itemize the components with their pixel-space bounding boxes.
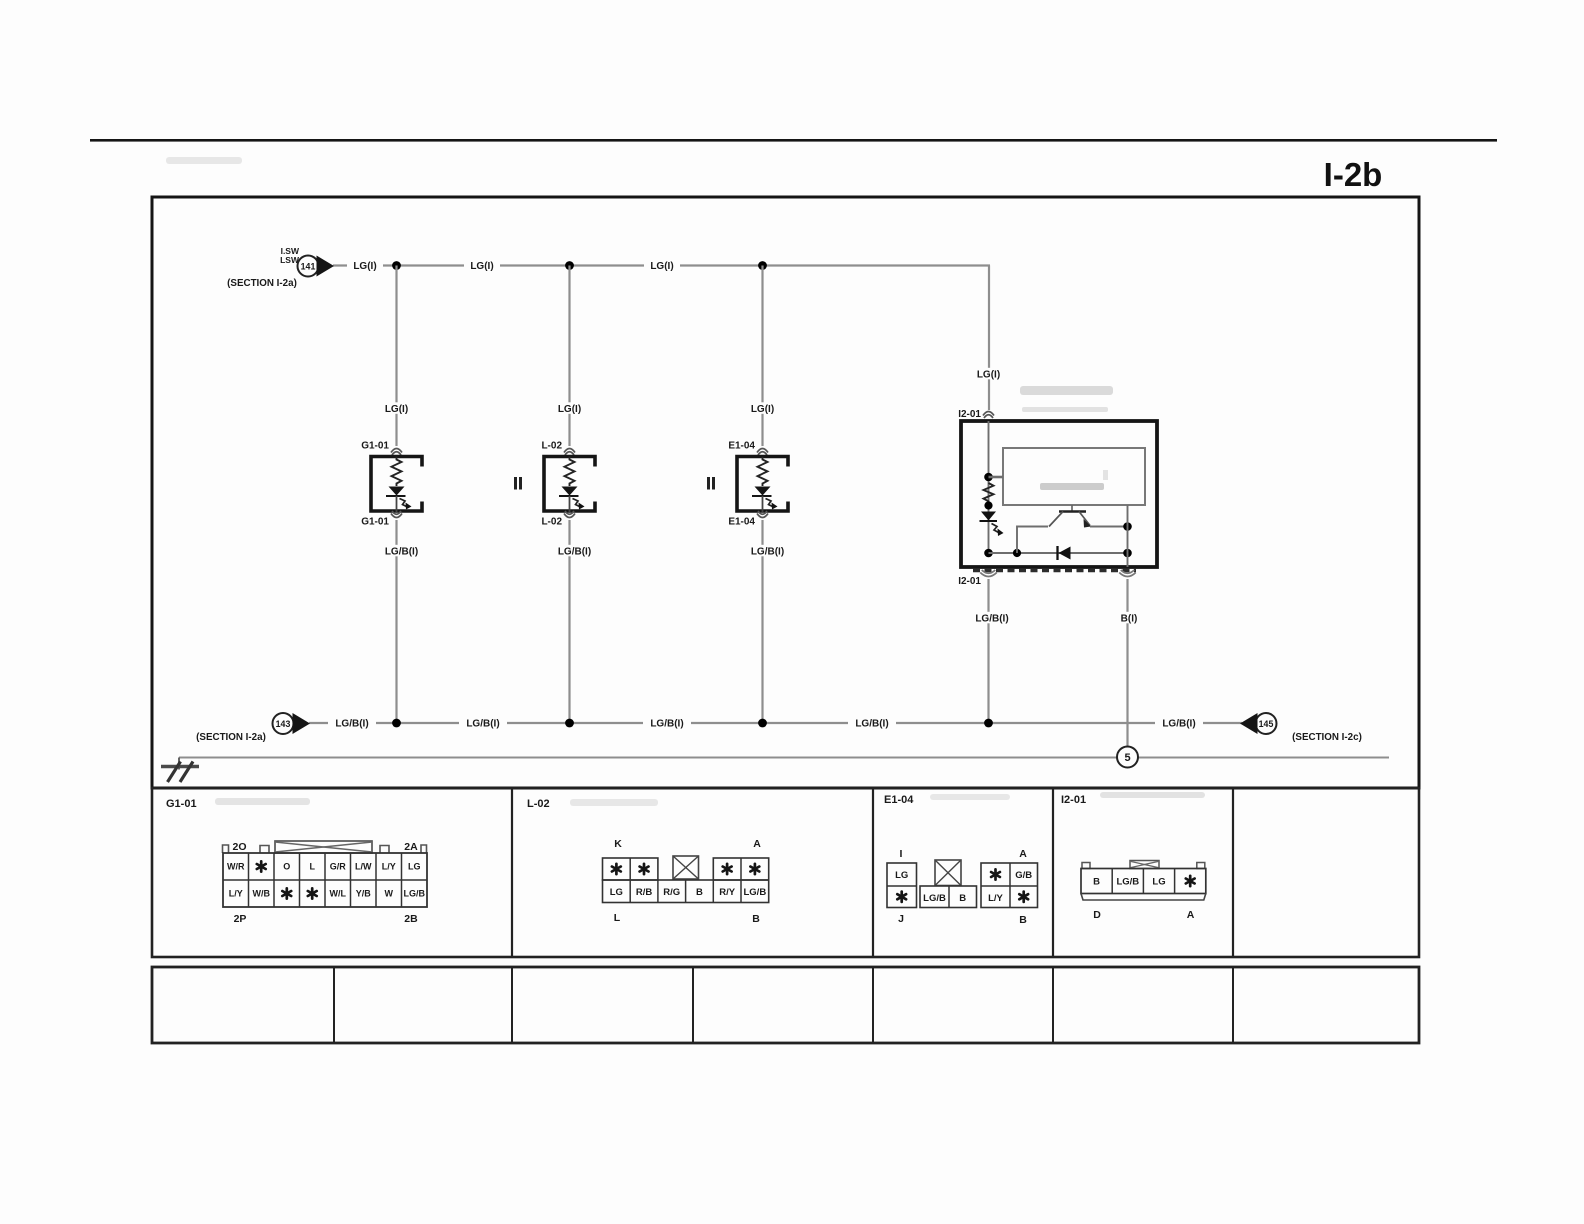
connector E1-04 bottom pin xyxy=(728,511,768,528)
svg-text:G1-01: G1-01 xyxy=(361,517,389,528)
svg-text:Y/B: Y/B xyxy=(356,889,372,899)
resistor in I2-01 xyxy=(984,483,994,503)
connector G1-01 pinout xyxy=(223,841,428,925)
LED in E1-04 xyxy=(752,487,778,510)
junction dot bottom bus / L-02 xyxy=(565,719,574,728)
connector I2-01 pinout xyxy=(1081,861,1206,922)
header E1-04 xyxy=(884,794,1010,806)
unit I2-01 case xyxy=(961,421,1157,567)
connector I2-01 bottom pin left xyxy=(958,570,997,587)
svg-text:A: A xyxy=(1019,848,1027,860)
svg-text:I2-01: I2-01 xyxy=(958,409,981,420)
wire: top bus drop to I2-01 xyxy=(988,266,990,411)
svg-text:LG/B(I): LG/B(I) xyxy=(975,614,1008,625)
junction dot I2-01 bottom-left xyxy=(984,549,993,558)
connector arrow 143 from SECTION I-2a xyxy=(196,713,310,743)
svg-text:143: 143 xyxy=(276,719,291,729)
svg-text:5: 5 xyxy=(1124,752,1130,764)
wire: LG/B(I) bottom bus xyxy=(309,722,1242,724)
svg-text:141: 141 xyxy=(301,262,316,272)
junction dot bottom bus / E1-04 xyxy=(758,719,767,728)
transistor Q in I2-01 xyxy=(1049,505,1091,528)
wire LED to case bottom in L-02 xyxy=(569,496,571,512)
table divider x=512 xyxy=(511,788,513,957)
svg-text:LG/B: LG/B xyxy=(1116,877,1139,888)
svg-text:LG: LG xyxy=(610,887,623,898)
svg-text:LG(I): LG(I) xyxy=(385,404,408,415)
illumination glyph left of L-02 xyxy=(514,477,522,490)
svg-text:LG/B: LG/B xyxy=(404,889,426,899)
label LG(I) on I2-01 drop xyxy=(971,368,1007,380)
svg-text:B(I): B(I) xyxy=(1121,614,1138,625)
svg-text:(SECTION I-2a): (SECTION I-2a) xyxy=(227,278,297,289)
resistor in G1-01 xyxy=(392,457,402,487)
connector table frame xyxy=(152,788,1419,957)
lamp L-02 case xyxy=(544,457,595,512)
svg-text:I2-01: I2-01 xyxy=(1061,794,1086,806)
label LG/B(I) seg3 xyxy=(643,717,691,729)
wire LED to case bottom in E1-04 xyxy=(762,496,764,512)
svg-text:I-2b: I-2b xyxy=(1324,156,1383,193)
LED in L-02 xyxy=(559,487,585,510)
svg-text:W/R: W/R xyxy=(227,862,245,872)
label LG/B(I) under G1-01 xyxy=(378,545,426,557)
table divider x=1233 xyxy=(1232,788,1234,957)
wire: I2-01 right leg xyxy=(1127,505,1129,567)
svg-text:(SECTION I-2c): (SECTION I-2c) xyxy=(1292,732,1362,743)
wire: LG/B(I) from G1-01 to bottom bus xyxy=(395,520,397,723)
svg-text:LG/B: LG/B xyxy=(923,893,946,904)
wire: LG/B(I) from E1-04 to bottom bus xyxy=(761,520,763,723)
label LG/B(I) seg2 xyxy=(459,717,507,729)
wire: LG(I) drop to G1-01 xyxy=(395,266,397,447)
legend divider x=1053 xyxy=(1052,967,1054,1043)
connector G1-01 top pin xyxy=(361,441,402,456)
faded page header text xyxy=(166,157,242,164)
svg-text:LG(I): LG(I) xyxy=(650,261,673,272)
svg-text:LG/B(I): LG/B(I) xyxy=(650,719,683,730)
svg-text:G/B: G/B xyxy=(1015,870,1032,881)
svg-text:LG(I): LG(I) xyxy=(558,404,581,415)
junction dot above LED xyxy=(984,501,992,509)
svg-text:I: I xyxy=(900,848,903,860)
svg-text:B: B xyxy=(752,913,760,925)
junction dot bottom bus stub xyxy=(1013,549,1021,557)
svg-text:2B: 2B xyxy=(404,913,418,925)
svg-text:LG/B(I): LG/B(I) xyxy=(335,719,368,730)
svg-text:LG: LG xyxy=(895,870,908,881)
svg-text:R/Y: R/Y xyxy=(719,887,736,898)
svg-text:R/G: R/G xyxy=(663,887,680,898)
wire: I2-01 left leg xyxy=(988,421,990,553)
label LG/B(I) under I2-01 xyxy=(968,612,1016,624)
svg-text:E1-04: E1-04 xyxy=(728,517,755,528)
svg-text:LG: LG xyxy=(408,862,421,872)
svg-text:K: K xyxy=(614,838,622,850)
junction dot bottom bus / I2-01 xyxy=(984,719,993,728)
wire: LG/B(I) from L-02 to bottom bus xyxy=(568,520,570,723)
svg-text:B: B xyxy=(1019,914,1027,926)
svg-text:A: A xyxy=(753,838,761,850)
wire: LG/B(I) from I2-01 to bottom bus xyxy=(987,579,989,723)
connector E1-04 pinout xyxy=(887,848,1038,926)
faded text above I2-01 box xyxy=(1020,386,1113,412)
connector E1-04 top pin xyxy=(728,441,768,456)
svg-text:R/B: R/B xyxy=(636,887,653,898)
svg-text:B: B xyxy=(959,893,966,904)
svg-text:LG/B(I): LG/B(I) xyxy=(558,547,591,558)
page top rule xyxy=(90,139,1497,142)
header I2-01 xyxy=(1061,792,1205,806)
illumination glyph left of E1-04 xyxy=(707,477,715,490)
wire: internal bottom bus of I2-01 xyxy=(989,552,1128,554)
svg-text:LG/B(I): LG/B(I) xyxy=(385,547,418,558)
ground (chassis) symbol xyxy=(161,758,199,783)
svg-text:L-02: L-02 xyxy=(527,798,550,810)
svg-text:I2-01: I2-01 xyxy=(958,576,981,587)
LED in G1-01 xyxy=(386,487,412,510)
table divider x=1053 xyxy=(1052,788,1054,957)
svg-text:L/W: L/W xyxy=(355,862,372,872)
svg-text:LG/B: LG/B xyxy=(743,887,766,898)
junction dot left leg / module stub xyxy=(984,473,993,482)
lamp E1-04 case xyxy=(737,457,788,512)
connector L-02 bottom pin xyxy=(541,511,575,528)
wire: emitter return stub xyxy=(1017,527,1048,554)
connector I2-01 top pin xyxy=(958,409,994,420)
bottom legend row xyxy=(152,967,1419,1043)
svg-text:LG(I): LG(I) xyxy=(751,404,774,415)
svg-text:LG/B(I): LG/B(I) xyxy=(751,547,784,558)
connector L-02 pinout xyxy=(603,838,769,925)
svg-text:G1-01: G1-01 xyxy=(361,441,389,452)
LED in I2-01 xyxy=(980,512,1004,537)
svg-text:2A: 2A xyxy=(404,841,418,853)
label B(I) xyxy=(1114,612,1144,624)
label LG(I) on E1-04 drop xyxy=(745,402,781,414)
svg-text:W/B: W/B xyxy=(253,889,271,899)
label LG/B(I) seg4 xyxy=(848,717,896,729)
svg-text:D: D xyxy=(1093,909,1101,921)
svg-text:B: B xyxy=(696,887,703,898)
table divider x=873 xyxy=(872,788,874,957)
header L-02 xyxy=(527,798,658,810)
legend divider x=512 xyxy=(511,967,513,1043)
svg-text:LG/B(I): LG/B(I) xyxy=(466,719,499,730)
junction dot top bus / G1-01 xyxy=(392,261,401,270)
svg-text:(SECTION I-2a): (SECTION I-2a) xyxy=(196,732,266,743)
svg-text:LG(I): LG(I) xyxy=(353,261,376,272)
dashed connector face under I2-01 xyxy=(973,569,1136,573)
svg-text:L: L xyxy=(614,912,621,924)
svg-text:2O: 2O xyxy=(232,841,246,853)
svg-text:L: L xyxy=(310,862,316,872)
svg-text:L-02: L-02 xyxy=(541,517,562,528)
svg-text:L-02: L-02 xyxy=(541,441,562,452)
svg-text:L/Y: L/Y xyxy=(382,862,396,872)
svg-text:LG(I): LG(I) xyxy=(470,261,493,272)
legend divider x=1233 xyxy=(1232,967,1234,1043)
svg-text:LG: LG xyxy=(1152,877,1165,888)
wire stub to module xyxy=(989,476,1004,479)
connector I2-01 bottom pin right xyxy=(1119,570,1136,577)
svg-text:G1-01: G1-01 xyxy=(166,798,197,810)
faded text inside module xyxy=(1040,470,1108,490)
lamp G1-01 case xyxy=(371,457,422,512)
label LG(I) on G1-01 drop xyxy=(379,402,415,414)
legend divider x=334 xyxy=(333,967,335,1043)
wire: B(I) from I2-01 to ground point 5 xyxy=(1126,579,1128,747)
svg-text:LG(I): LG(I) xyxy=(977,370,1000,381)
wire LED to case bottom in G1-01 xyxy=(396,496,398,512)
svg-text:145: 145 xyxy=(1259,719,1274,729)
junction dot right leg upper xyxy=(1123,522,1132,531)
label LG(I) on L-02 drop xyxy=(552,402,588,414)
legend divider x=873 xyxy=(872,967,874,1043)
junction dot right leg lower xyxy=(1123,549,1132,558)
wire: ground bus xyxy=(179,757,1389,759)
label LG(I) seg3 xyxy=(644,259,680,271)
wire: LG(I) drop to L-02 xyxy=(568,266,570,447)
diode in I2-01 xyxy=(1058,546,1071,560)
svg-text:L/Y: L/Y xyxy=(229,889,243,899)
svg-text:LG/B(I): LG/B(I) xyxy=(855,719,888,730)
label LG/B(I) seg5 xyxy=(1155,717,1203,729)
connector L-02 top pin xyxy=(541,441,575,456)
svg-text:E1-04: E1-04 xyxy=(884,794,914,806)
svg-text:2P: 2P xyxy=(234,913,247,925)
label LG(I) seg1 xyxy=(347,259,383,271)
label LG/B(I) seg1 xyxy=(328,717,376,729)
label LG(I) seg2 xyxy=(464,259,500,271)
connector G1-01 bottom pin xyxy=(361,511,402,528)
junction dot top bus / E1-04 xyxy=(758,261,767,270)
wire: collector to right leg xyxy=(1090,526,1128,528)
junction dot top bus / L-02 xyxy=(565,261,574,270)
svg-text:E1-04: E1-04 xyxy=(728,441,755,452)
inner module box in I2-01 xyxy=(1003,448,1145,505)
resistor in E1-04 xyxy=(758,457,768,487)
svg-text:LG/B(I): LG/B(I) xyxy=(1162,719,1195,730)
svg-text:B: B xyxy=(1093,877,1100,888)
wire: LG(I) drop to E1-04 xyxy=(761,266,763,447)
main diagram frame xyxy=(152,197,1419,788)
header G1-01 xyxy=(166,798,310,810)
ground point 5 xyxy=(1117,747,1138,768)
svg-text:G/R: G/R xyxy=(330,862,347,872)
label LG/B(I) under E1-04 xyxy=(744,545,792,557)
svg-text:O: O xyxy=(283,862,290,872)
connector arrow 141 from SECTION I-2a xyxy=(227,246,334,289)
svg-text:W: W xyxy=(385,889,394,899)
svg-text:L/Y: L/Y xyxy=(988,893,1003,904)
connector arrow 145 to SECTION I-2c xyxy=(1240,713,1362,743)
junction dot bottom bus / G1-01 xyxy=(392,719,401,728)
legend divider x=693 xyxy=(692,967,694,1043)
svg-text:A: A xyxy=(1187,909,1195,921)
svg-text:J: J xyxy=(898,913,904,925)
resistor in L-02 xyxy=(565,457,575,487)
wire: LG(I) top bus xyxy=(333,264,990,266)
label LG/B(I) under L-02 xyxy=(551,545,599,557)
svg-text:W/L: W/L xyxy=(330,889,347,899)
